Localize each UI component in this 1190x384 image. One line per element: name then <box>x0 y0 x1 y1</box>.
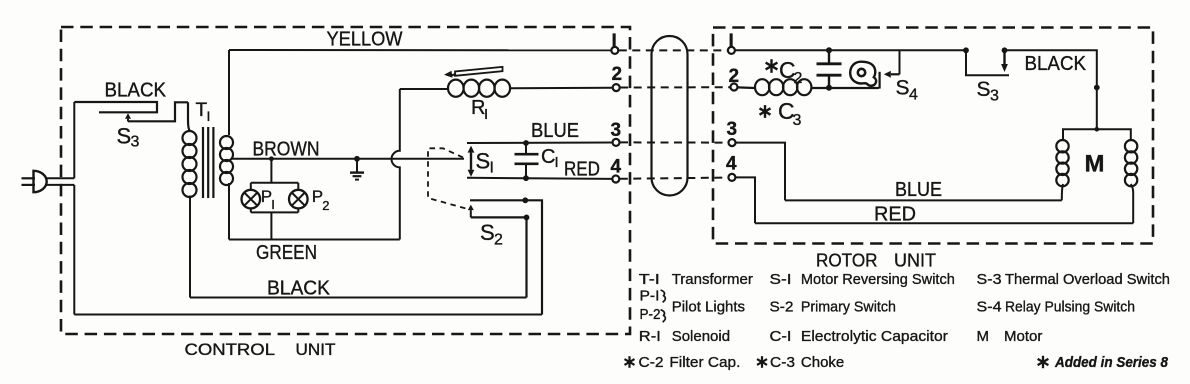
svg-text:C-3: C-3 <box>770 354 795 371</box>
svg-text:3: 3 <box>990 88 999 105</box>
terminal 3 (rotor) <box>729 139 736 146</box>
terminal 2 (control) <box>613 84 620 91</box>
wire plug to riser (bottom prong) <box>46 184 75 186</box>
rotor unit enclosure (dashed box) <box>713 28 1153 244</box>
switch S1 top contact (BLUE) <box>467 142 612 145</box>
svg-text:ROTOR: ROTOR <box>816 250 878 271</box>
svg-text:S-3: S-3 <box>977 271 1002 288</box>
svg-text:2: 2 <box>322 198 329 213</box>
wire BLUE (rotor) <box>785 199 1062 201</box>
transformer T1 core <box>203 127 213 198</box>
svg-text:C-I: C-I <box>770 328 792 345</box>
wire terminal 3 to BLUE <box>736 143 786 201</box>
switch S3 (control unit thermal cutout) <box>74 102 188 122</box>
terminal 1 (control) <box>611 47 618 54</box>
svg-text:BLUE: BLUE <box>531 120 579 142</box>
svg-text:Thermal Overload Switch: Thermal Overload Switch <box>1005 271 1170 288</box>
legend Added in Series 8 <box>1042 356 1044 368</box>
svg-text:RED: RED <box>874 204 916 226</box>
svg-text:4: 4 <box>611 156 622 177</box>
mechanical linkage S1-S2 (dashed) <box>428 148 466 208</box>
wire secondary top to YELLOW <box>228 50 230 135</box>
svg-text:S: S <box>117 124 132 149</box>
svg-text:YELLOW: YELLOW <box>327 28 403 50</box>
svg-text:GREEN: GREEN <box>256 242 317 264</box>
wire GREEN <box>229 239 400 241</box>
svg-text:Pilot Lights: Pilot Lights <box>672 299 745 316</box>
wire riser down to bottom return <box>73 185 75 315</box>
svg-text:Filter Cap.: Filter Cap. <box>669 354 740 371</box>
transformer T1 primary winding <box>183 102 197 197</box>
legend C-2 Filter Cap. <box>628 356 630 368</box>
junction pilot-light tap <box>269 156 274 161</box>
svg-text:Solenoid: Solenoid <box>672 328 730 345</box>
capacitor C2 <box>817 47 842 91</box>
terminal 4 (control) <box>612 176 619 183</box>
switch S4 actuating arrow <box>891 73 900 75</box>
capacitor C1 <box>515 140 539 181</box>
svg-text:2: 2 <box>612 64 623 85</box>
transformer T1 secondary winding <box>220 136 233 149</box>
wire line return (plug to S2) <box>74 314 542 316</box>
cable wire 1 (dashed) <box>619 49 728 51</box>
svg-text:Electrolytic Capacitor: Electrolytic Capacitor <box>801 328 948 345</box>
svg-text:I: I <box>555 154 559 171</box>
ground (chassis earth on brown wire) <box>350 156 364 180</box>
svg-text:3: 3 <box>611 120 622 141</box>
wire YELLOW (secondary to terminal 1) <box>229 49 611 51</box>
svg-text:R-I: R-I <box>639 328 661 345</box>
star added-in-series-8 marker (C3) <box>764 105 766 118</box>
wire BROWN (secondary tap to S1) <box>232 158 464 160</box>
svg-text:BLACK: BLACK <box>267 277 331 299</box>
switch S1 bottom contact (RED) <box>467 178 612 179</box>
wire S3 to BLACK corner <box>1005 50 1097 129</box>
svg-text:RED: RED <box>564 158 600 180</box>
terminal 2 (rotor) <box>731 84 738 91</box>
svg-text:Motor Reversing Switch: Motor Reversing Switch <box>801 271 955 288</box>
svg-text:4: 4 <box>909 87 918 104</box>
wire secondary bottom to GREEN <box>228 183 230 240</box>
wire riser up to switch S3 <box>73 102 75 178</box>
svg-text:C-2: C-2 <box>639 354 664 371</box>
svg-text:2: 2 <box>494 232 503 249</box>
switch S2 contacts <box>470 197 542 314</box>
switch S2 pole arrow <box>470 210 472 217</box>
choke C3 <box>738 79 879 95</box>
svg-text:UNIT: UNIT <box>296 340 336 359</box>
svg-text:I: I <box>484 106 488 123</box>
svg-text:S: S <box>476 149 491 174</box>
svg-text:S-2: S-2 <box>770 299 794 316</box>
svg-text:Choke: Choke <box>801 354 844 371</box>
svg-text:Relay Pulsing Switch: Relay Pulsing Switch <box>1005 299 1135 316</box>
svg-text:3: 3 <box>131 134 140 151</box>
terminal 3 (control) <box>613 139 620 146</box>
svg-text:C: C <box>541 146 555 168</box>
wire S4 feed from top <box>899 50 901 74</box>
svg-text:Added in Series 8: Added in Series 8 <box>1054 354 1168 371</box>
svg-text:M: M <box>1085 151 1105 178</box>
wire RED (rotor) <box>755 222 1133 224</box>
svg-text:I: I <box>207 108 211 124</box>
svg-text:BLACK: BLACK <box>105 80 167 102</box>
pilot light P1 <box>242 190 261 209</box>
svg-text:CONTROL: CONTROL <box>185 340 276 359</box>
cable wire 3 (dashed) <box>620 141 728 143</box>
svg-text:BLACK: BLACK <box>1025 53 1087 75</box>
svg-text:S: S <box>896 77 910 100</box>
wire terminal 1 to S3 (rotor top) <box>735 49 966 51</box>
terminal 1 (rotor) <box>728 47 735 54</box>
pilot light P2 <box>289 190 308 209</box>
cable wire 2 (dashed) <box>620 86 730 88</box>
wire pilot light return <box>251 208 298 239</box>
svg-text:3: 3 <box>793 112 802 129</box>
control unit enclosure (dashed box) <box>61 27 630 334</box>
svg-text:4: 4 <box>726 154 737 175</box>
svg-text:Transformer: Transformer <box>672 271 753 288</box>
solenoid R1 coil <box>400 80 613 97</box>
svg-text:BLUE: BLUE <box>895 179 942 201</box>
wire primary bottom down <box>189 196 191 298</box>
motor M windings <box>1056 127 1137 223</box>
switch S4 cam <box>850 62 876 86</box>
solenoid R1 plunger <box>444 67 503 78</box>
switch S4 follower contact <box>878 72 880 89</box>
junction motor feed <box>1094 85 1100 91</box>
wire terminal 4 to RED <box>735 177 755 223</box>
svg-text:S-I: S-I <box>770 271 792 288</box>
svg-text:2: 2 <box>729 66 740 87</box>
legend C-3 Choke <box>761 356 763 368</box>
interconnect cable (oval) <box>652 36 688 196</box>
star added-in-series-8 marker (C2) <box>770 59 772 73</box>
svg-text:T-I: T-I <box>639 271 660 288</box>
svg-text:Motor: Motor <box>1004 328 1042 345</box>
svg-text:I: I <box>729 31 734 52</box>
cable wire 4 (dashed) <box>620 178 728 179</box>
svg-text:I: I <box>490 160 494 177</box>
svg-text:P-2: P-2 <box>640 306 661 323</box>
wire R1 left lead down (with hop over BROWN) <box>391 89 399 240</box>
wire BLACK bottom (primary return) <box>190 297 527 299</box>
svg-text:Primary Switch: Primary Switch <box>801 299 896 316</box>
wire pilot light feed <box>251 159 298 190</box>
svg-text:S: S <box>977 78 991 101</box>
svg-text:3: 3 <box>727 119 738 140</box>
switch S3 (rotor thermal overload) <box>963 47 1009 75</box>
svg-text:P-I: P-I <box>640 288 660 305</box>
svg-text:I: I <box>612 31 617 52</box>
svg-text:S: S <box>480 220 495 245</box>
svg-text:S-4: S-4 <box>977 299 1002 316</box>
terminal 4 (rotor) <box>728 174 735 181</box>
wire plug to riser (top prong) <box>46 177 75 179</box>
svg-text:UNIT: UNIT <box>894 250 936 271</box>
svg-text:BROWN: BROWN <box>253 138 320 160</box>
switch S1 pole (double arrow) <box>468 146 475 177</box>
svg-text:I: I <box>271 197 275 212</box>
AC line plug <box>22 171 47 192</box>
svg-text:M: M <box>977 328 990 345</box>
